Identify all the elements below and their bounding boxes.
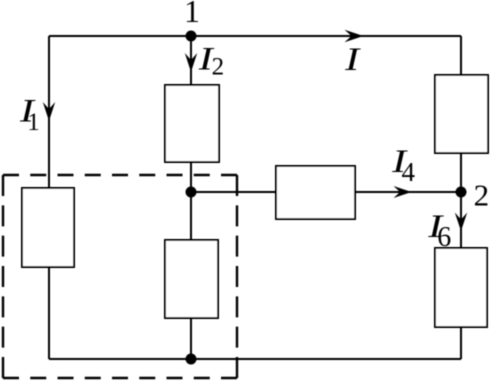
svg-text:I: I xyxy=(344,42,362,78)
svg-text:6: 6 xyxy=(437,222,451,253)
svg-text:1: 1 xyxy=(27,109,40,136)
svg-text:4: 4 xyxy=(402,157,416,187)
svg-text:2: 2 xyxy=(212,54,225,81)
svg-text:1: 1 xyxy=(184,0,200,29)
svg-text:2: 2 xyxy=(474,178,490,213)
